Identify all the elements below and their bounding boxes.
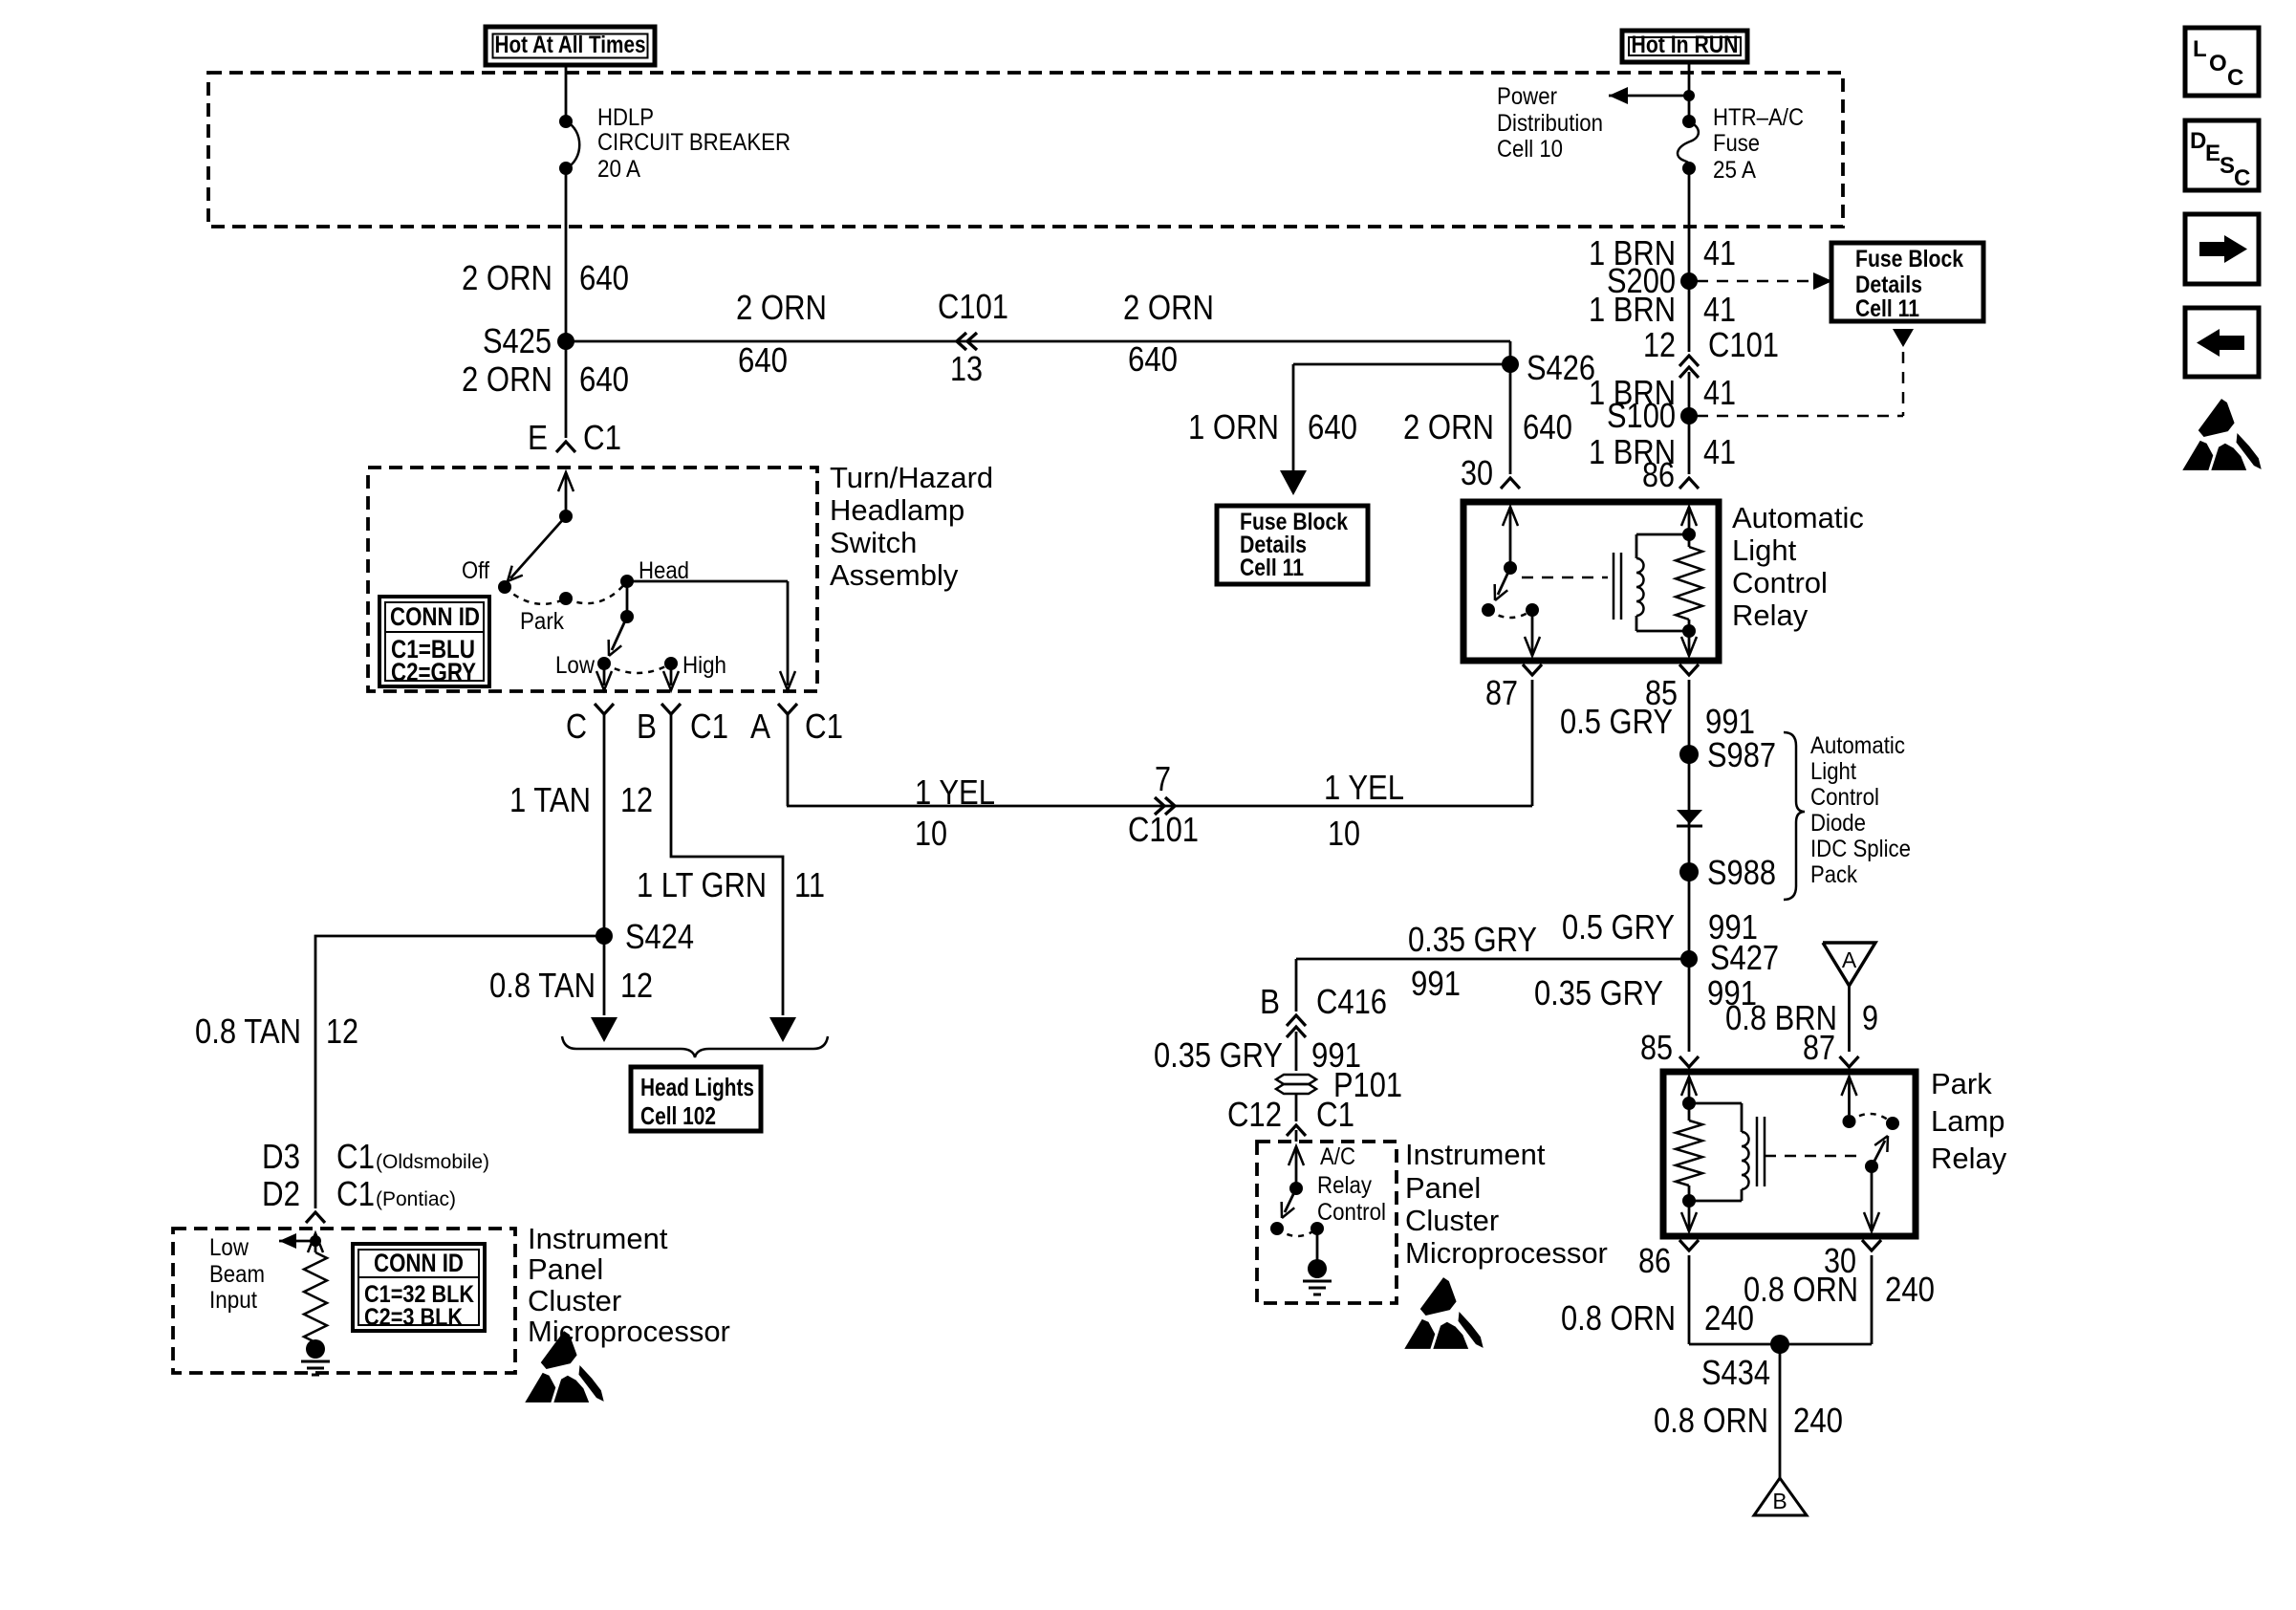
svg-text:Low: Low xyxy=(555,652,596,679)
svg-text:0.35 GRY: 0.35 GRY xyxy=(1534,973,1663,1012)
svg-text:2 ORN: 2 ORN xyxy=(1123,288,1214,327)
svg-text:2 ORN: 2 ORN xyxy=(736,288,827,327)
svg-text:Cell 11: Cell 11 xyxy=(1855,295,1919,322)
svg-text:C2=GRY: C2=GRY xyxy=(391,658,476,686)
svg-text:Panel: Panel xyxy=(1405,1171,1481,1205)
svg-text:C1: C1 xyxy=(336,1174,375,1213)
svg-text:S434: S434 xyxy=(1701,1353,1770,1392)
svg-text:D3: D3 xyxy=(262,1137,300,1176)
svg-text:25 A: 25 A xyxy=(1713,157,1756,184)
svg-text:7: 7 xyxy=(1155,759,1171,798)
svg-text:Automatic: Automatic xyxy=(1810,732,1905,759)
svg-text:0.8 BRN: 0.8 BRN xyxy=(1725,998,1837,1037)
svg-text:High: High xyxy=(682,652,726,679)
svg-text:Lamp: Lamp xyxy=(1931,1104,2005,1138)
svg-text:Head Lights: Head Lights xyxy=(640,1073,754,1101)
svg-text:S427: S427 xyxy=(1710,938,1779,977)
svg-text:13: 13 xyxy=(950,349,983,388)
svg-text:C: C xyxy=(566,707,587,746)
svg-text:41: 41 xyxy=(1703,432,1736,471)
svg-text:Relay: Relay xyxy=(1931,1142,2007,1175)
svg-text:HTR–A/C: HTR–A/C xyxy=(1713,104,1804,131)
svg-text:86: 86 xyxy=(1642,455,1675,494)
svg-text:240: 240 xyxy=(1885,1270,1935,1309)
svg-text:B: B xyxy=(1260,982,1280,1021)
svg-text:D: D xyxy=(2190,128,2206,154)
svg-text:Cell 11: Cell 11 xyxy=(1240,555,1304,581)
svg-text:Instrument: Instrument xyxy=(1405,1138,1546,1171)
svg-text:0.35 GRY: 0.35 GRY xyxy=(1408,920,1537,959)
svg-text:85: 85 xyxy=(1640,1028,1673,1067)
svg-text:0.5 GRY: 0.5 GRY xyxy=(1562,907,1675,946)
svg-text:Light: Light xyxy=(1810,758,1856,785)
svg-text:1 YEL: 1 YEL xyxy=(915,772,995,812)
svg-text:C1: C1 xyxy=(583,418,621,457)
svg-text:Park: Park xyxy=(520,608,564,635)
svg-text:Low: Low xyxy=(209,1234,249,1261)
svg-text:87: 87 xyxy=(1485,673,1518,712)
svg-text:640: 640 xyxy=(1128,339,1178,379)
svg-text:Fuse Block: Fuse Block xyxy=(1855,246,1963,272)
svg-text:L: L xyxy=(2193,36,2207,62)
svg-text:Control: Control xyxy=(1317,1199,1386,1226)
svg-text:2 ORN: 2 ORN xyxy=(462,359,552,399)
svg-text:86: 86 xyxy=(1638,1241,1671,1280)
svg-text:C1: C1 xyxy=(690,707,728,746)
svg-text:C1: C1 xyxy=(336,1137,375,1176)
svg-text:Microprocessor: Microprocessor xyxy=(1405,1236,1608,1270)
svg-text:240: 240 xyxy=(1793,1401,1843,1440)
svg-text:Control: Control xyxy=(1810,784,1879,811)
svg-text:S: S xyxy=(2220,153,2235,179)
svg-text:0.8 TAN: 0.8 TAN xyxy=(195,1012,301,1051)
svg-text:E: E xyxy=(2205,141,2220,166)
svg-text:12: 12 xyxy=(1643,325,1676,364)
svg-text:2 ORN: 2 ORN xyxy=(1403,407,1494,446)
svg-text:1 BRN: 1 BRN xyxy=(1589,290,1676,329)
svg-text:C416: C416 xyxy=(1316,982,1387,1021)
svg-text:Cluster: Cluster xyxy=(1405,1204,1499,1237)
svg-text:C101: C101 xyxy=(1708,325,1779,364)
svg-text:C1: C1 xyxy=(805,707,843,746)
svg-text:640: 640 xyxy=(1523,407,1572,446)
svg-text:0.8 ORN: 0.8 ORN xyxy=(1654,1401,1768,1440)
svg-text:Cell 102: Cell 102 xyxy=(640,1101,716,1130)
svg-text:O: O xyxy=(2209,51,2227,76)
svg-text:1 LT GRN: 1 LT GRN xyxy=(637,865,767,904)
svg-text:C: C xyxy=(2227,65,2243,91)
svg-text:Hot In RUN: Hot In RUN xyxy=(1632,32,1739,58)
svg-text:Switch: Switch xyxy=(830,526,917,559)
svg-text:Power: Power xyxy=(1497,83,1557,110)
svg-text:Park: Park xyxy=(1931,1067,1992,1100)
svg-text:CIRCUIT BREAKER: CIRCUIT BREAKER xyxy=(597,129,791,156)
svg-text:Diode: Diode xyxy=(1810,810,1866,837)
svg-text:Hot At All Times: Hot At All Times xyxy=(495,32,646,58)
svg-text:Relay: Relay xyxy=(1317,1172,1372,1199)
svg-text:C2=3 BLK: C2=3 BLK xyxy=(364,1304,463,1331)
svg-text:0.5 GRY: 0.5 GRY xyxy=(1560,702,1673,741)
svg-text:9: 9 xyxy=(1862,998,1878,1037)
svg-text:S987: S987 xyxy=(1707,735,1776,774)
svg-text:CONN ID: CONN ID xyxy=(390,602,480,631)
svg-text:Panel: Panel xyxy=(528,1252,603,1286)
svg-text:0.8 ORN: 0.8 ORN xyxy=(1561,1298,1676,1338)
svg-text:30: 30 xyxy=(1461,453,1493,492)
svg-text:B: B xyxy=(637,707,657,746)
svg-text:Beam: Beam xyxy=(209,1261,265,1288)
svg-text:C: C xyxy=(2234,165,2250,191)
svg-text:Input: Input xyxy=(209,1287,257,1314)
svg-text:1 TAN: 1 TAN xyxy=(509,780,591,819)
svg-text:1 ORN: 1 ORN xyxy=(1188,407,1279,446)
svg-text:Details: Details xyxy=(1855,272,1922,298)
svg-text:A: A xyxy=(750,707,770,746)
svg-text:Relay: Relay xyxy=(1732,598,1809,632)
svg-text:IDC Splice: IDC Splice xyxy=(1810,836,1911,862)
svg-text:Distribution: Distribution xyxy=(1497,110,1603,137)
svg-text:640: 640 xyxy=(1308,407,1357,446)
svg-text:Automatic: Automatic xyxy=(1732,501,1864,534)
svg-text:12: 12 xyxy=(620,780,653,819)
svg-text:0.8 TAN: 0.8 TAN xyxy=(489,966,596,1005)
svg-text:B: B xyxy=(1772,1489,1787,1513)
svg-text:A: A xyxy=(1842,947,1857,972)
svg-text:S426: S426 xyxy=(1527,348,1595,387)
svg-text:41: 41 xyxy=(1703,233,1736,272)
svg-text:Cluster: Cluster xyxy=(528,1284,621,1317)
svg-text:41: 41 xyxy=(1703,373,1736,412)
svg-text:2 ORN: 2 ORN xyxy=(462,258,552,297)
svg-text:Control: Control xyxy=(1732,566,1828,599)
svg-text:Pack: Pack xyxy=(1810,861,1857,888)
svg-text:640: 640 xyxy=(738,340,788,380)
svg-text:Light: Light xyxy=(1732,533,1797,567)
svg-text:D2: D2 xyxy=(262,1174,300,1213)
svg-text:1 YEL: 1 YEL xyxy=(1324,768,1404,807)
svg-text:Off: Off xyxy=(462,557,489,584)
svg-text:Headlamp: Headlamp xyxy=(830,493,964,527)
svg-text:10: 10 xyxy=(915,814,947,853)
svg-text:991: 991 xyxy=(1411,964,1461,1003)
svg-text:0.8 ORN: 0.8 ORN xyxy=(1744,1270,1858,1309)
svg-text:640: 640 xyxy=(579,258,629,297)
svg-text:12: 12 xyxy=(620,966,653,1005)
svg-text:Cell 10: Cell 10 xyxy=(1497,136,1563,163)
svg-text:(Pontiac): (Pontiac) xyxy=(376,1188,456,1210)
svg-text:CONN ID: CONN ID xyxy=(374,1249,464,1277)
svg-text:20 A: 20 A xyxy=(597,156,640,183)
svg-text:(Oldsmobile): (Oldsmobile) xyxy=(376,1151,489,1173)
svg-text:12: 12 xyxy=(326,1012,358,1051)
svg-text:E: E xyxy=(528,418,548,457)
svg-text:C1: C1 xyxy=(1316,1095,1354,1134)
svg-text:HDLP: HDLP xyxy=(597,104,654,131)
svg-text:Turn/Hazard: Turn/Hazard xyxy=(830,461,993,494)
svg-text:10: 10 xyxy=(1328,814,1360,853)
svg-text:Assembly: Assembly xyxy=(830,558,959,592)
svg-text:C101: C101 xyxy=(938,287,1008,326)
svg-text:S100: S100 xyxy=(1607,396,1676,435)
svg-text:S988: S988 xyxy=(1707,853,1776,892)
svg-text:0.35 GRY: 0.35 GRY xyxy=(1154,1035,1283,1075)
svg-text:S424: S424 xyxy=(625,917,694,956)
svg-text:Fuse: Fuse xyxy=(1713,130,1760,157)
svg-text:640: 640 xyxy=(579,359,629,399)
svg-text:S425: S425 xyxy=(483,321,552,360)
svg-text:C12: C12 xyxy=(1227,1095,1282,1134)
svg-text:41: 41 xyxy=(1703,290,1736,329)
svg-text:11: 11 xyxy=(794,865,825,904)
svg-text:C101: C101 xyxy=(1128,810,1199,849)
svg-text:Instrument: Instrument xyxy=(528,1222,668,1255)
svg-text:A/C: A/C xyxy=(1320,1143,1355,1170)
